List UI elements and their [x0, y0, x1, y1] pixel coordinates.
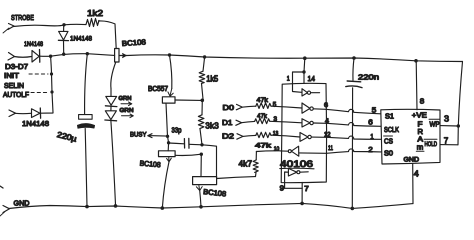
- svg-text:11: 11: [328, 146, 334, 152]
- node junction 33p left: [167, 141, 170, 144]
- svg-text:1N4148: 1N4148: [24, 41, 43, 48]
- wire INIT dashed: [29, 73, 48, 75]
- svg-text:SELIN: SELIN: [4, 81, 24, 90]
- wire input to diode D2: [14, 56, 32, 59]
- diode D1 1N4148 vertical: [58, 25, 68, 54]
- svg-text:3k3: 3k3: [205, 121, 219, 131]
- transistor Q1 BC108: [111, 49, 127, 89]
- node AUTOLF input terminal: [9, 110, 16, 117]
- svg-text:S1: S1: [385, 114, 394, 121]
- label HOLD with overline: [424, 139, 437, 148]
- node D3-D7 input terminal: [8, 53, 15, 61]
- node junction rail 220n: [352, 56, 356, 60]
- svg-text:1: 1: [370, 134, 374, 141]
- svg-text:R: R: [418, 129, 424, 136]
- svg-text:1N4148: 1N4148: [70, 36, 92, 43]
- svg-text:SCLK: SCLK: [384, 127, 399, 134]
- svg-text:BC108: BC108: [122, 37, 147, 48]
- svg-text:BC108: BC108: [139, 158, 161, 169]
- svg-text:INIT: INIT: [4, 73, 20, 80]
- svg-text:47k: 47k: [255, 143, 272, 150]
- wire D1 row into box: [270, 121, 302, 123]
- wire GND rail: [9, 203, 413, 208]
- wire pin1 loop: [293, 72, 305, 92]
- node junction 1k5/3k3/BC557: [201, 99, 205, 103]
- svg-text:4k7: 4k7: [239, 160, 253, 169]
- resistor R5 47k: [256, 103, 271, 109]
- label WP with overline: [429, 119, 440, 128]
- resistor R2 1k5: [199, 57, 205, 100]
- node junction gnd Q3: [161, 206, 165, 210]
- svg-text:S0: S0: [384, 150, 393, 157]
- wire pin9 tie to pin7: [285, 187, 303, 189]
- resistor R6 47k: [255, 118, 270, 123]
- wire BUSY arrow: [148, 134, 168, 138]
- svg-text:BC557: BC557: [148, 86, 168, 93]
- svg-text:4: 4: [414, 169, 420, 178]
- svg-text:BUSY: BUSY: [130, 132, 147, 139]
- wire AUTOLF dashed: [31, 92, 48, 94]
- svg-text:D3-D7: D3-D7: [5, 62, 28, 71]
- node junction AUTOLF: [50, 90, 53, 93]
- inverter U1c: [302, 119, 326, 127]
- node junction gnd 220n: [351, 207, 355, 211]
- wire 1k2 to BC108 collector: [99, 21, 117, 49]
- wire pin3 to +V vertical: [440, 125, 458, 127]
- svg-text:GRN: GRN: [120, 108, 134, 114]
- wire D0 to 47k: [242, 106, 256, 107]
- diode D3 1N4148: [32, 108, 54, 118]
- wire pin14 drop: [303, 58, 306, 83]
- wire Q3 collector node down to Q4: [200, 154, 202, 176]
- svg-text:D2: D2: [222, 132, 234, 141]
- svg-text:5: 5: [372, 107, 377, 114]
- svg-text:D0: D0: [223, 103, 235, 112]
- svg-text:10: 10: [274, 147, 280, 153]
- wire pin7 to +V vertical: [440, 144, 458, 146]
- transistor Q3 BC108: [159, 151, 202, 209]
- wire pin10 row: [256, 150, 280, 153]
- svg-text:m: m: [417, 145, 424, 152]
- svg-text:STROBE: STROBE: [11, 13, 34, 22]
- label CS with overline: [384, 136, 394, 146]
- svg-text:HOLD: HOLD: [425, 142, 438, 148]
- node junction rail BC557: [168, 53, 171, 56]
- svg-text:7: 7: [444, 136, 449, 145]
- wire BUSY node to 33p node: [168, 136, 169, 151]
- svg-text:6: 6: [324, 102, 328, 109]
- node junction diode D1 bottom: [62, 53, 65, 56]
- svg-text:WP: WP: [430, 121, 440, 128]
- wire diode D2 to BC108 base row: [40, 54, 115, 57]
- svg-text:8: 8: [420, 96, 425, 105]
- node junction 33p right: [200, 143, 203, 146]
- capacitor C2 33p: [169, 138, 202, 148]
- node junction BUSY: [166, 135, 169, 138]
- svg-text:D1: D1: [222, 118, 233, 127]
- svg-text:47k: 47k: [257, 97, 269, 104]
- svg-text:BC108: BC108: [203, 187, 227, 198]
- resistor R4 4k7: [253, 152, 258, 177]
- node junction diode bus top: [49, 55, 52, 58]
- svg-text:GRN: GRN: [119, 96, 132, 102]
- svg-text:CS: CS: [384, 139, 393, 146]
- wire pin7 to ground: [301, 182, 303, 203]
- capacitor C1 220u electrolytic: [78, 115, 95, 207]
- svg-text:A: A: [418, 137, 424, 144]
- svg-text:1N4148: 1N4148: [22, 121, 49, 128]
- wire STROBE line: [13, 24, 86, 26]
- node junction gnd 220u: [85, 205, 89, 209]
- wire D1 to 47k: [242, 121, 255, 122]
- node junction rail pin14: [303, 56, 307, 60]
- node junction gnd pin7: [300, 202, 304, 206]
- node junction rail 1k5: [203, 55, 206, 58]
- IC U2 FRAM box: [381, 109, 440, 164]
- node GND terminal: [0, 206, 10, 217]
- svg-text:GND: GND: [404, 156, 420, 163]
- inverter U1b: [302, 103, 326, 113]
- svg-text:14: 14: [308, 76, 316, 83]
- resistor R3 3k3: [198, 101, 204, 145]
- svg-text:220n: 220n: [358, 73, 379, 82]
- node junction gnd Q4: [199, 205, 203, 209]
- wire jog 33p node to collector row: [202, 145, 217, 178]
- node junction pin1/pin14: [302, 70, 305, 73]
- diode D2 1N4148 horizontal: [32, 50, 40, 63]
- inverter U1d: [300, 133, 326, 142]
- wire 220u drop: [85, 54, 88, 114]
- svg-text:3: 3: [444, 114, 450, 123]
- svg-text:7: 7: [304, 186, 309, 193]
- IC U1 40106 box: [281, 83, 326, 182]
- wire LED2 light arrow: [122, 114, 134, 118]
- svg-text:220µ: 220µ: [56, 130, 78, 144]
- wire 220n drop: [353, 58, 354, 80]
- svg-text:5: 5: [273, 103, 277, 109]
- node junction 220u tap: [86, 52, 89, 55]
- wire D0 row into box: [271, 106, 302, 108]
- LED LED2 green: [105, 107, 117, 205]
- svg-text:+VE: +VE: [412, 112, 427, 119]
- node junction pin3: [457, 124, 460, 127]
- wire +V right vertical: [458, 62, 463, 145]
- node STROBE input terminal: [3, 24, 14, 34]
- resistor R7 47k: [256, 132, 271, 137]
- node D2 input terminal: [237, 134, 243, 140]
- wire stray mark left edge: [0, 186, 3, 188]
- inverter U1f: [285, 168, 309, 188]
- transistor Q4 BC108: [193, 177, 256, 207]
- node junction INIT: [50, 72, 53, 75]
- wire input to diode D3: [15, 112, 31, 114]
- svg-text:1k2: 1k2: [87, 9, 104, 18]
- inverter U1a: [302, 89, 320, 96]
- svg-text:AUTOLF: AUTOLF: [3, 90, 30, 99]
- svg-text:1: 1: [287, 77, 291, 83]
- transistor Q2 BC557: [162, 55, 201, 136]
- wire U1d out to chip pin1 (hop): [326, 136, 381, 139]
- node junction gnd LED: [114, 204, 118, 208]
- node D1 input terminal: [236, 120, 242, 125]
- svg-text:33p: 33p: [172, 128, 182, 135]
- wire D2 row into box: [271, 135, 300, 137]
- LED LED1 green: [105, 89, 117, 107]
- node junction BC108 Q3 collector: [200, 153, 203, 156]
- wire LED1 light arrow: [121, 102, 132, 106]
- svg-text:6: 6: [368, 120, 373, 127]
- capacitor C3 220n: [346, 81, 362, 208]
- svg-text:F: F: [418, 122, 423, 129]
- wire main +V rail: [127, 55, 463, 62]
- node junction rail pin8: [414, 59, 418, 63]
- node D0 input terminal: [236, 104, 242, 109]
- wire pin4 ground: [412, 164, 414, 204]
- wire D2 to 47k: [243, 135, 256, 136]
- label m with underline: [416, 145, 424, 152]
- svg-text:47k: 47k: [257, 113, 268, 120]
- wire diode bus vertical: [51, 56, 53, 112]
- svg-text:9: 9: [280, 186, 285, 193]
- inverter U1e (points left): [280, 146, 326, 156]
- wire U1e in to chip pin2 (hop): [327, 149, 382, 153]
- svg-text:2: 2: [368, 147, 373, 154]
- wire pin8: [415, 61, 418, 110]
- node junction STROBE/diode: [62, 23, 65, 26]
- wire U1c out to chip pin6 (hop): [326, 123, 381, 127]
- wire U1b out to chip pin5 (hop): [326, 109, 381, 114]
- svg-text:1k5: 1k5: [206, 75, 219, 84]
- resistor 1k2: [86, 19, 99, 27]
